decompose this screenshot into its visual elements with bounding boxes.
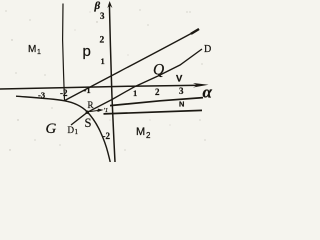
arrowhead of beta axis: [107, 1, 112, 8]
svg-text:2: 2: [100, 36, 105, 46]
svg-text:3: 3: [179, 86, 184, 96]
svg-text:2: 2: [146, 131, 151, 140]
arrowhead of alpha axis: [193, 83, 209, 88]
svg-text:D: D: [68, 125, 75, 135]
svg-text:2: 2: [155, 87, 160, 97]
svg-text:M: M: [136, 126, 145, 138]
svg-text:3: 3: [100, 11, 105, 21]
svg-text:G: G: [46, 121, 57, 137]
svg-text:V: V: [176, 74, 183, 85]
line D (lower diagonal): [71, 49, 202, 125]
svg-text:-2: -2: [103, 131, 111, 141]
svg-text:Q: Q: [153, 62, 164, 79]
vertical line at alpha=-2: [63, 4, 65, 101]
svg-text:D: D: [204, 44, 211, 55]
svg-text:α: α: [203, 83, 213, 102]
svg-text:-3: -3: [38, 90, 45, 100]
wire: beta axis (vertical): [109, 4, 115, 162]
background paper: [0, 0, 214, 162]
svg-text:-1: -1: [84, 85, 91, 95]
upper diagonal line (from (-2,-0.5) up right): [65, 29, 200, 100]
svg-text:R: R: [88, 100, 94, 110]
curve G (hyperbola branch): [16, 96, 110, 162]
node S junction dot: [86, 111, 89, 114]
svg-text:1: 1: [75, 128, 79, 136]
wire: alpha axis (horizontal): [0, 85, 201, 89]
thick hook at end of upper diagonal: [191, 29, 199, 34]
svg-text:p: p: [83, 43, 91, 60]
svg-text:N: N: [179, 99, 184, 108]
svg-text:M: M: [28, 44, 36, 55]
svg-text:1: 1: [101, 56, 105, 66]
svg-text:1: 1: [37, 49, 41, 56]
svg-text:S: S: [85, 116, 92, 130]
svg-text:1: 1: [133, 88, 137, 98]
horizontal line N upper: [110, 98, 203, 106]
horizontal line N lower: [104, 110, 203, 114]
small arrow from S toward beta axis: [90, 110, 100, 111]
scan noise specks: [5, 9, 205, 150]
svg-text:-2: -2: [60, 88, 68, 98]
